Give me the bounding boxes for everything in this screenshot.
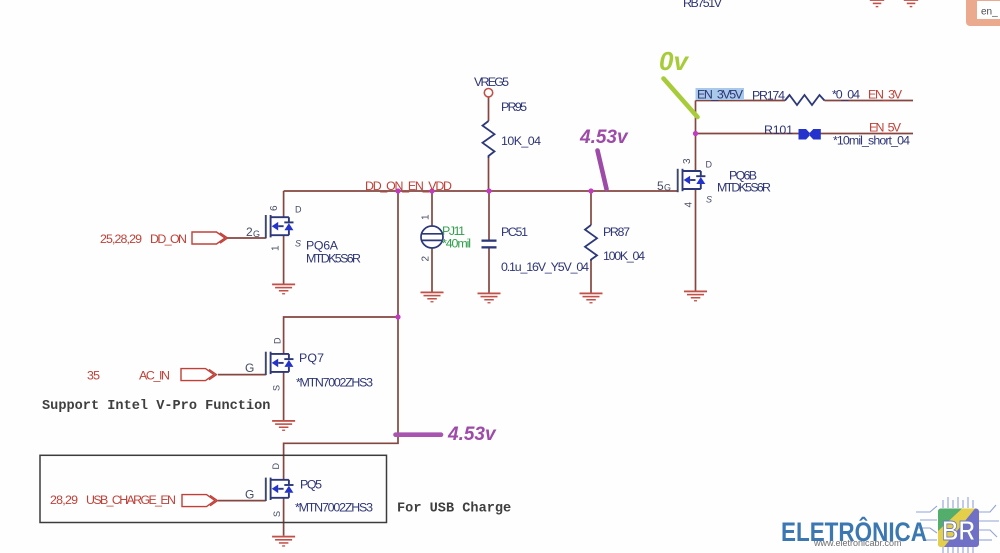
svg-text:1: 1	[421, 214, 432, 220]
svg-text:PR95: PR95	[501, 100, 527, 114]
svg-text:G: G	[253, 229, 260, 239]
svg-text:G: G	[664, 183, 671, 193]
svg-text:MTDK5S6R: MTDK5S6R	[717, 181, 771, 195]
svg-text:4.53v: 4.53v	[447, 424, 497, 445]
svg-text:*MTN7002ZHS3: *MTN7002ZHS3	[296, 376, 373, 390]
svg-text:S: S	[706, 195, 712, 205]
svg-text:en_: en_	[981, 7, 998, 18]
svg-text:For USB Charge: For USB Charge	[397, 502, 511, 517]
svg-text:4: 4	[684, 202, 695, 208]
svg-text:DD_ON_EN_VDD: DD_ON_EN_VDD	[365, 179, 452, 193]
svg-text:100K_04: 100K_04	[603, 249, 645, 263]
svg-text:Support Intel V-Pro Function: Support Intel V-Pro Function	[42, 399, 270, 414]
svg-text:D: D	[273, 337, 283, 344]
svg-text:S: S	[272, 385, 282, 391]
svg-text:RB751V: RB751V	[683, 0, 723, 10]
svg-text:R101: R101	[764, 123, 793, 137]
svg-text:2: 2	[421, 256, 432, 262]
svg-text:D: D	[706, 160, 713, 170]
svg-text:6: 6	[269, 205, 280, 211]
svg-text:D: D	[295, 205, 302, 215]
svg-text:G: G	[245, 488, 254, 502]
svg-text:USB_CHARGE_EN: USB_CHARGE_EN	[86, 493, 176, 507]
svg-text:PC51: PC51	[501, 225, 528, 239]
svg-text:PR174: PR174	[752, 89, 785, 103]
svg-text:G: G	[245, 361, 254, 375]
svg-text:BR: BR	[942, 515, 975, 546]
svg-text:D: D	[271, 463, 281, 470]
svg-text:VREG5: VREG5	[474, 75, 509, 89]
svg-text:EN_5V: EN_5V	[869, 121, 902, 135]
svg-text:35: 35	[87, 369, 100, 383]
svg-text:DD_ON: DD_ON	[150, 232, 187, 246]
svg-text:EN_3V5V: EN_3V5V	[697, 88, 744, 102]
svg-text:www.eletronicabr.com: www.eletronicabr.com	[813, 538, 902, 548]
svg-text:25,28,29: 25,28,29	[100, 232, 142, 246]
svg-text:0v: 0v	[659, 46, 689, 76]
svg-text:4.53v: 4.53v	[579, 127, 629, 148]
svg-text:AC_IN: AC_IN	[139, 369, 170, 383]
svg-text:PQ5: PQ5	[300, 478, 322, 492]
svg-text:*10mil_short_04: *10mil_short_04	[833, 134, 910, 148]
svg-text:*MTN7002ZHS3: *MTN7002ZHS3	[295, 501, 373, 515]
svg-text:S: S	[295, 239, 301, 249]
svg-text:*40mil: *40mil	[442, 237, 471, 251]
svg-text:EN_3V: EN_3V	[868, 88, 903, 102]
svg-text:PQ7: PQ7	[299, 351, 324, 365]
svg-text:28,29: 28,29	[50, 493, 78, 507]
svg-text:MTDK5S6R: MTDK5S6R	[306, 252, 361, 266]
svg-text:10K_04: 10K_04	[501, 134, 541, 148]
svg-text:2: 2	[246, 225, 253, 239]
svg-text:0.1u_16V_Y5V_04: 0.1u_16V_Y5V_04	[501, 260, 589, 274]
svg-text:*0_04: *0_04	[832, 88, 860, 102]
svg-text:5: 5	[657, 179, 664, 193]
svg-text:1: 1	[271, 245, 282, 251]
svg-text:S: S	[272, 511, 282, 517]
svg-text:3: 3	[682, 158, 693, 164]
svg-text:PQ6A: PQ6A	[306, 239, 339, 253]
svg-text:PR87: PR87	[603, 225, 630, 239]
